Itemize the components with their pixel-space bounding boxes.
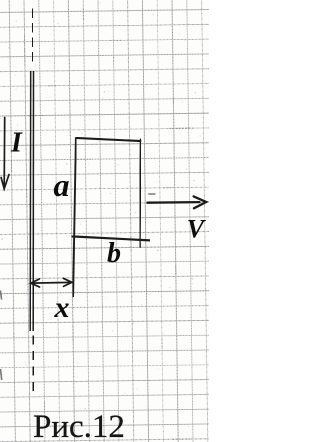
label I (current)	[10, 127, 23, 158]
caption Рис.12	[33, 409, 125, 442]
svg-text:b: b	[107, 238, 121, 269]
current arrow (direction of I, pointing down)	[1, 118, 9, 189]
rectangular loop bottom side (with overshoot to the right)	[72, 236, 151, 240]
scan smudge at left edge	[0, 291, 1, 381]
svg-text:V: V	[187, 215, 207, 244]
svg-text:a: a	[54, 167, 70, 203]
label x (distance)	[54, 291, 70, 324]
velocity arrow V (pointing right)	[147, 196, 206, 208]
dimension arrow x (double-headed, wire to loop side)	[31, 278, 72, 287]
rectangular loop left side (extended down as dimension reference)	[73, 137, 76, 297]
label a (loop height)	[54, 167, 70, 203]
rectangular loop top side	[76, 138, 142, 141]
stray dark grid mark near loop right side	[148, 193, 155, 196]
wire W1 dashed upper extension	[31, 9, 34, 64]
wire W1 dashed lower extension	[32, 336, 36, 398]
svg-text:Рис.12: Рис.12	[33, 409, 125, 442]
rectangular loop right side	[139, 139, 142, 248]
wire W1 double solid conductor	[30, 71, 33, 331]
label V (velocity)	[187, 215, 207, 244]
svg-text:I: I	[10, 127, 23, 158]
svg-text:x: x	[54, 291, 70, 324]
label b (loop width)	[107, 238, 121, 269]
paper background	[0, 0, 209, 442]
